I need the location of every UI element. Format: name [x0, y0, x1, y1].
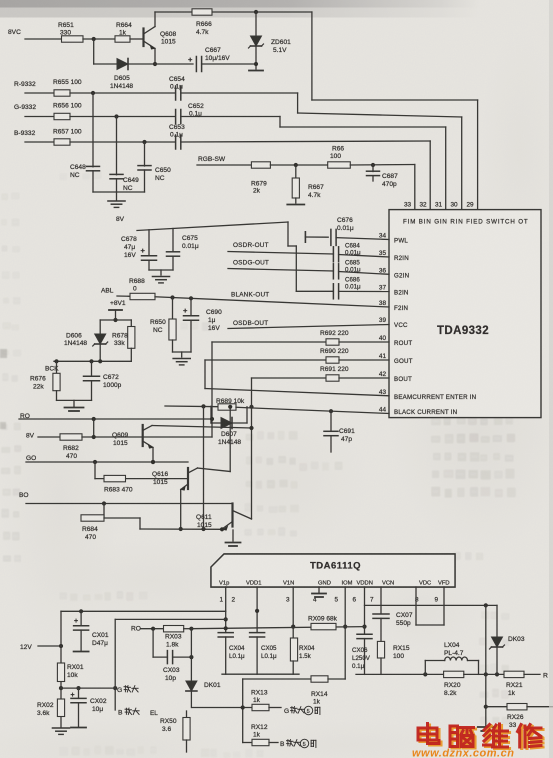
svg-text:www.dznx.com.cn: www.dznx.com.cn — [412, 748, 514, 758]
